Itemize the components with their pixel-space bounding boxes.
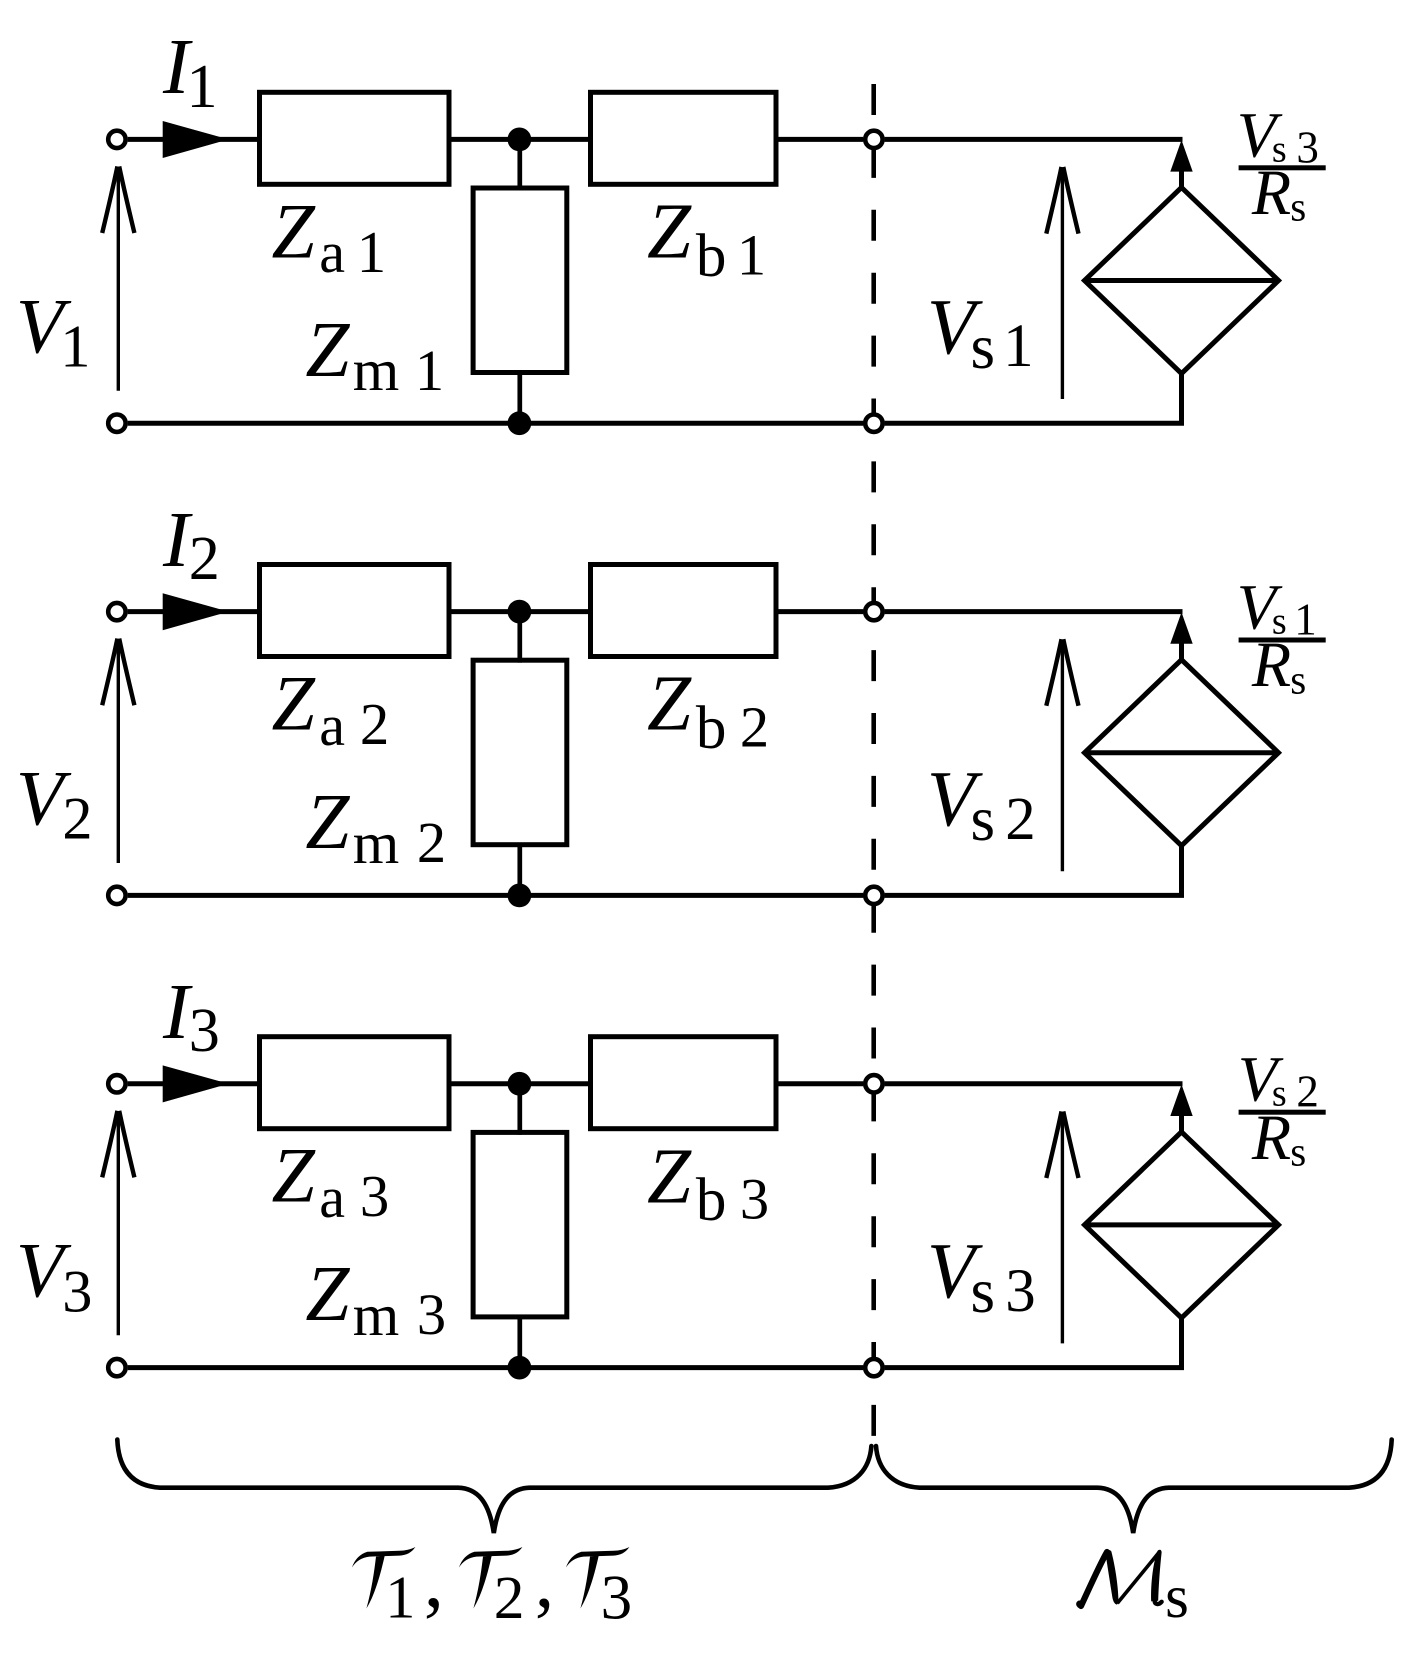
svg-text:R: R bbox=[1251, 1102, 1291, 1173]
svg-text:2: 2 bbox=[1005, 786, 1035, 853]
resistor Zm3 bbox=[473, 1132, 567, 1317]
controlled source E1 midline bbox=[1085, 278, 1279, 283]
wire top-left row 1 bbox=[128, 137, 261, 142]
wire output terminal to source, top row 1 bbox=[885, 137, 1183, 142]
svg-text:1: 1 bbox=[1294, 595, 1317, 645]
svg-text:3: 3 bbox=[189, 997, 220, 1065]
wire Za1 to Zb1 with tap bbox=[449, 137, 591, 142]
svg-text:Z: Z bbox=[272, 1132, 317, 1219]
svg-text:1: 1 bbox=[415, 338, 444, 403]
wire bottom rail row 1 bbox=[128, 421, 864, 426]
terminal output 2 minus bbox=[865, 887, 882, 904]
wire Zb2 to output terminal bbox=[776, 609, 863, 614]
svg-text:b: b bbox=[696, 695, 727, 762]
wire node to Zm2 bbox=[517, 612, 522, 663]
resistor Za2 bbox=[260, 565, 450, 657]
controlled source E2 arrowhead bbox=[1170, 612, 1192, 644]
wire Za2 to Zb2 with tap bbox=[449, 609, 591, 614]
controlled source E1 diamond bbox=[1085, 188, 1279, 374]
svg-text:2: 2 bbox=[360, 692, 389, 757]
resistor Za3 bbox=[260, 1037, 450, 1129]
wire top-left row 2 bbox=[128, 609, 261, 614]
svg-text:s: s bbox=[971, 312, 996, 382]
svg-text:s: s bbox=[971, 1256, 996, 1326]
svg-text:Z: Z bbox=[647, 1133, 692, 1221]
terminal output 3 plus bbox=[865, 1075, 882, 1092]
node junction top row 1 bbox=[508, 127, 532, 151]
svg-text:R: R bbox=[1251, 629, 1291, 700]
controlled source E1 arrowhead bbox=[1170, 140, 1192, 172]
svg-text:s: s bbox=[971, 784, 996, 854]
svg-text:2: 2 bbox=[740, 695, 769, 760]
voltage arrow V2 bbox=[102, 639, 134, 863]
brace under Ms section bbox=[876, 1440, 1392, 1534]
terminal output 2 plus bbox=[865, 603, 882, 620]
wire output terminal to source, top row 2 bbox=[885, 609, 1183, 614]
wire output terminal to source, top row 3 bbox=[885, 1081, 1183, 1086]
svg-text:2: 2 bbox=[62, 786, 92, 853]
svg-text:Z: Z bbox=[305, 1250, 350, 1338]
fraction bar row 3 bbox=[1239, 1110, 1326, 1115]
controlled source E3 diamond bbox=[1085, 1132, 1279, 1318]
terminal port 1 minus bbox=[108, 415, 125, 432]
resistor Zb3 bbox=[591, 1037, 777, 1129]
label calligraphic T1 glyph bbox=[352, 1547, 416, 1609]
svg-text:Z: Z bbox=[272, 188, 317, 275]
wire Zm1 to bottom node bbox=[517, 371, 522, 423]
terminal port 2 minus bbox=[108, 887, 125, 904]
svg-text:Z: Z bbox=[647, 188, 692, 276]
wire source to bottom rail row 3 bbox=[885, 1318, 1182, 1368]
dashed boundary line between T networks and Ms bbox=[871, 84, 876, 1443]
label calligraphic M of Ms glyph bbox=[1076, 1550, 1161, 1609]
svg-text:s: s bbox=[1290, 657, 1306, 703]
svg-text:m: m bbox=[353, 810, 400, 876]
svg-text:1: 1 bbox=[1003, 313, 1033, 380]
node junction bottom row 1 bbox=[508, 411, 532, 435]
wire source to bottom rail row 1 bbox=[885, 373, 1182, 423]
wire bottom rail row 3 bbox=[128, 1365, 864, 1370]
terminal port 2 plus bbox=[108, 603, 125, 620]
svg-text:,: , bbox=[535, 1537, 554, 1623]
fraction bar row 1 bbox=[1239, 165, 1326, 170]
node junction top row 3 bbox=[508, 1072, 532, 1096]
label calligraphic T3 glyph bbox=[566, 1547, 630, 1609]
svg-text:m: m bbox=[353, 337, 400, 403]
wire node to Zm1 bbox=[517, 139, 522, 190]
wire Zb1 to output terminal bbox=[776, 137, 863, 142]
voltage arrow V3 bbox=[102, 1111, 134, 1335]
svg-text:Z: Z bbox=[272, 660, 317, 747]
wire Za3 to Zb3 with tap bbox=[449, 1081, 591, 1086]
svg-text:3: 3 bbox=[417, 1282, 446, 1347]
svg-text:s: s bbox=[1290, 1129, 1306, 1175]
svg-text:Z: Z bbox=[305, 306, 350, 394]
svg-text:s: s bbox=[1165, 1564, 1189, 1631]
svg-text:2: 2 bbox=[417, 810, 446, 875]
svg-text:b: b bbox=[696, 223, 727, 290]
wire top-left row 3 bbox=[128, 1081, 261, 1086]
node junction bottom row 2 bbox=[508, 884, 532, 908]
voltage arrow V1 bbox=[102, 166, 134, 390]
terminal port 3 plus bbox=[108, 1075, 125, 1092]
terminal output 1 minus bbox=[865, 415, 882, 432]
terminal output 1 plus bbox=[865, 131, 882, 148]
resistor Zb1 bbox=[591, 92, 777, 184]
svg-text:1: 1 bbox=[187, 53, 218, 121]
wire Zm2 to bottom node bbox=[517, 843, 522, 895]
fraction bar row 2 bbox=[1239, 638, 1326, 643]
controlled source E3 midline bbox=[1085, 1222, 1279, 1227]
current arrow I1 bbox=[163, 121, 229, 158]
terminal port 1 plus bbox=[108, 131, 125, 148]
wire node to Zm3 bbox=[517, 1084, 522, 1135]
voltage arrow Vs1 bbox=[1046, 167, 1078, 399]
svg-text:Z: Z bbox=[647, 660, 692, 748]
svg-text:,: , bbox=[424, 1536, 444, 1625]
svg-text:3: 3 bbox=[360, 1164, 389, 1229]
label calligraphic T2 glyph bbox=[459, 1547, 523, 1609]
svg-text:R: R bbox=[1251, 157, 1291, 228]
resistor Zm1 bbox=[473, 188, 567, 373]
controlled source E3 arrowhead bbox=[1170, 1084, 1192, 1116]
svg-text:1: 1 bbox=[385, 1565, 415, 1632]
voltage arrow Vs3 bbox=[1046, 1111, 1078, 1343]
svg-text:2: 2 bbox=[189, 525, 220, 593]
voltage arrow Vs2 bbox=[1046, 639, 1078, 871]
svg-text:1: 1 bbox=[737, 223, 766, 288]
svg-text:1: 1 bbox=[60, 314, 90, 381]
controlled source E2 midline bbox=[1085, 750, 1279, 755]
svg-text:a: a bbox=[319, 1165, 345, 1230]
terminal port 3 minus bbox=[108, 1359, 125, 1376]
svg-text:m: m bbox=[353, 1282, 400, 1348]
brace under T1,T2,T3 section bbox=[117, 1440, 871, 1534]
svg-text:1: 1 bbox=[357, 220, 386, 285]
svg-text:3: 3 bbox=[1296, 123, 1319, 173]
svg-text:3: 3 bbox=[62, 1259, 92, 1326]
resistor Zb2 bbox=[591, 565, 777, 657]
node junction top row 2 bbox=[508, 600, 532, 624]
node junction bottom row 3 bbox=[508, 1356, 532, 1380]
wire bottom rail row 2 bbox=[128, 893, 864, 898]
svg-text:a: a bbox=[319, 693, 345, 758]
svg-text:a: a bbox=[319, 220, 345, 285]
resistor Za1 bbox=[260, 92, 450, 184]
current arrow I3 bbox=[163, 1065, 229, 1102]
wire Zb3 to output terminal bbox=[776, 1081, 863, 1086]
svg-text:b: b bbox=[696, 1167, 727, 1234]
svg-text:2: 2 bbox=[1296, 1067, 1319, 1117]
svg-text:3: 3 bbox=[740, 1167, 769, 1232]
resistor Zm2 bbox=[473, 660, 567, 845]
svg-text:3: 3 bbox=[1005, 1258, 1035, 1325]
wire Zm3 to bottom node bbox=[517, 1316, 522, 1368]
terminal output 3 minus bbox=[865, 1359, 882, 1376]
current arrow I2 bbox=[163, 593, 229, 630]
svg-text:3: 3 bbox=[601, 1563, 633, 1633]
wire source to bottom rail row 2 bbox=[885, 845, 1182, 895]
svg-text:Z: Z bbox=[305, 778, 350, 866]
controlled source E2 diamond bbox=[1085, 660, 1279, 846]
svg-text:s: s bbox=[1290, 184, 1306, 230]
svg-text:2: 2 bbox=[494, 1564, 525, 1632]
